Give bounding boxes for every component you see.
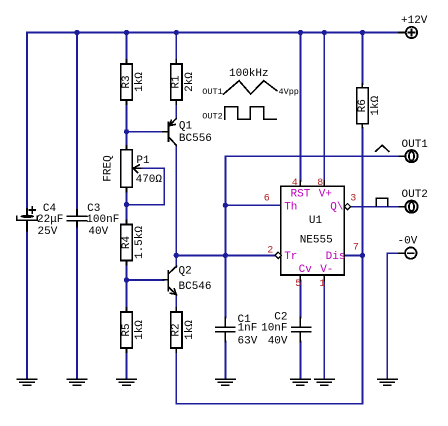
svg-text:3: 3 xyxy=(350,194,356,205)
node rail-R6 junction xyxy=(360,30,365,35)
svg-text:R4: R4 xyxy=(121,236,133,250)
wire +12V top rail xyxy=(27,32,399,34)
wire P1 wiper return xyxy=(127,168,165,204)
wire Q2 emitter to R2 xyxy=(175,295,177,308)
capacitor C2 10nF 40V xyxy=(261,312,311,348)
node P1 bottom junction xyxy=(124,202,129,207)
node rail-pin4 junction xyxy=(298,30,303,35)
wire R3 bottom to base node xyxy=(126,104,128,146)
svg-text:BC546: BC546 xyxy=(179,281,212,293)
wire C3 column vertical xyxy=(76,33,78,211)
wire Q1 base xyxy=(127,131,164,133)
wire P1 bottom node xyxy=(126,192,128,221)
svg-text:4Vpp: 4Vpp xyxy=(279,87,299,97)
wire R1 top xyxy=(175,33,177,61)
wire C3 bottom to ground xyxy=(76,227,78,379)
node Th-C1 junction xyxy=(223,203,228,208)
ground -0V xyxy=(378,379,397,385)
resistor R1 2k xyxy=(171,60,196,104)
ground R5 xyxy=(117,379,136,385)
potentiometer P1 470R FREQ xyxy=(102,146,162,192)
svg-text:R6: R6 xyxy=(357,99,369,112)
svg-text:Q2: Q2 xyxy=(179,265,192,277)
ground C1 xyxy=(216,379,235,385)
svg-text:6: 6 xyxy=(264,194,270,205)
svg-text:FREQ: FREQ xyxy=(102,155,114,182)
svg-text:10nF: 10nF xyxy=(261,322,287,334)
svg-text:5: 5 xyxy=(295,279,301,290)
svg-text:2kΩ: 2kΩ xyxy=(184,72,196,92)
wire R6 top xyxy=(361,33,363,85)
svg-text:1: 1 xyxy=(319,279,325,290)
wire OUT1 row xyxy=(225,155,399,157)
transistor Q1 BC556 (PNP) xyxy=(163,119,212,146)
svg-text:Cv: Cv xyxy=(299,264,313,276)
node rail-pin8 junction xyxy=(322,30,327,35)
svg-text:U1: U1 xyxy=(309,215,323,227)
svg-text:1kΩ: 1kΩ xyxy=(184,320,196,340)
svg-text:Tr: Tr xyxy=(284,251,297,263)
wire left C4 column vertical xyxy=(26,33,28,210)
wire pin1 to ground xyxy=(323,281,325,379)
wire OUT1 column C1 xyxy=(224,156,226,317)
wire Dis pin7 xyxy=(344,254,362,256)
wire R4 bottom node xyxy=(126,265,128,309)
resistor R4 1.5k xyxy=(121,221,146,265)
ground pin1 xyxy=(315,379,334,385)
svg-text:63V: 63V xyxy=(238,335,258,347)
pin 2 Tr diamond xyxy=(275,252,281,258)
svg-text:OUT1: OUT1 xyxy=(202,87,222,97)
ground C3 xyxy=(67,379,86,385)
node R3-Q1 base junction xyxy=(124,129,129,134)
node R4-Q2 base junction xyxy=(124,277,129,282)
node rail-R3 junction xyxy=(124,30,129,35)
wire R3 top xyxy=(126,33,128,61)
resistor R6 1k xyxy=(357,84,382,128)
svg-text:-0V: -0V xyxy=(398,236,418,248)
waveform triangle wave xyxy=(224,81,278,94)
ground C4 xyxy=(17,379,36,385)
wire R6 bottom to Dis node xyxy=(361,128,363,256)
svg-text:1kΩ: 1kΩ xyxy=(134,320,146,340)
svg-text:P1: P1 xyxy=(136,155,150,167)
wire Q2 base xyxy=(127,279,164,281)
svg-text:1nF: 1nF xyxy=(238,322,258,334)
ground C2 xyxy=(291,379,310,385)
node rail-R1 junction xyxy=(174,30,179,35)
svg-text:40V: 40V xyxy=(268,335,288,347)
svg-text:R1: R1 xyxy=(171,75,183,89)
capacitor C1 1nF 63V xyxy=(216,314,258,348)
svg-text:22μF: 22μF xyxy=(37,214,63,226)
wire Th row xyxy=(225,204,280,206)
svg-text:V-: V- xyxy=(320,264,333,276)
node Dis junction xyxy=(360,253,365,258)
resistor R3 1k xyxy=(121,60,146,104)
svg-text:1.5kΩ: 1.5kΩ xyxy=(134,226,146,259)
svg-text:40V: 40V xyxy=(88,226,108,238)
OUT1 triangle icon xyxy=(376,145,389,151)
waveform square wave xyxy=(225,107,276,120)
svg-text:R3: R3 xyxy=(121,75,133,88)
svg-text:OUT1: OUT1 xyxy=(402,139,429,151)
svg-text:100kHz: 100kHz xyxy=(229,68,269,80)
wire C1 bottom to ground xyxy=(224,342,226,379)
svg-text:1kΩ: 1kΩ xyxy=(370,95,382,115)
terminal -0V xyxy=(398,236,418,259)
wire Q pin3 to OUT2 xyxy=(351,206,400,208)
svg-text:Q1: Q1 xyxy=(179,121,193,133)
svg-text:BC556: BC556 xyxy=(179,133,212,145)
OUT2 square icon xyxy=(376,198,387,206)
svg-text:470Ω: 470Ω xyxy=(136,174,163,186)
node rail-C3 junction xyxy=(74,30,79,35)
svg-text:4: 4 xyxy=(292,178,298,189)
wire R5 bottom to ground xyxy=(126,352,128,379)
resistor R5 1k xyxy=(121,308,146,352)
wire C4 bottom to ground xyxy=(26,231,28,379)
wire pin4 xyxy=(299,33,301,182)
wire Tr row xyxy=(176,254,275,256)
svg-text:Dis: Dis xyxy=(326,251,346,263)
wire pin8 xyxy=(323,33,325,182)
svg-text:R5: R5 xyxy=(121,323,133,336)
resistor R2 1k xyxy=(171,308,196,352)
terminal OUT2 xyxy=(400,189,428,213)
wire pin5 to C2 xyxy=(299,281,301,318)
svg-text:OUT2: OUT2 xyxy=(402,189,428,201)
svg-text:25V: 25V xyxy=(38,226,58,238)
pin 3 Q diamond xyxy=(344,204,350,210)
IC U1 NE555 timer xyxy=(264,178,359,290)
wire -0V terminal xyxy=(387,253,399,378)
svg-text:R2: R2 xyxy=(171,323,183,336)
wire R1 bottom to Q1 emitter xyxy=(175,104,177,119)
svg-text:Th: Th xyxy=(284,201,297,213)
capacitor C4 22uF 25V electrolytic xyxy=(17,203,64,238)
svg-text:7: 7 xyxy=(353,242,359,253)
svg-text:2: 2 xyxy=(267,246,273,257)
terminal OUT1 xyxy=(400,139,429,162)
terminal +12V xyxy=(399,15,428,38)
svg-text:Q\: Q\ xyxy=(330,201,343,213)
wire R2 bottom return xyxy=(176,255,362,403)
capacitor C3 100nF 40V xyxy=(68,203,120,238)
svg-text:8: 8 xyxy=(317,178,323,189)
svg-text:V+: V+ xyxy=(319,188,332,200)
node Tr-C1 junction xyxy=(223,253,228,258)
svg-text:NE555: NE555 xyxy=(300,235,333,247)
wire Q1 collector to Q2 collector xyxy=(175,145,177,267)
svg-text:1kΩ: 1kΩ xyxy=(134,72,146,92)
svg-text:RST: RST xyxy=(291,188,311,200)
svg-text:100nF: 100nF xyxy=(86,214,119,226)
wire C2 bottom to ground xyxy=(299,342,301,379)
svg-text:+12V: +12V xyxy=(401,15,428,27)
svg-text:OUT2: OUT2 xyxy=(202,111,222,121)
node Tr branch junction xyxy=(174,253,179,258)
transistor Q2 BC546 (NPN) xyxy=(164,265,212,295)
